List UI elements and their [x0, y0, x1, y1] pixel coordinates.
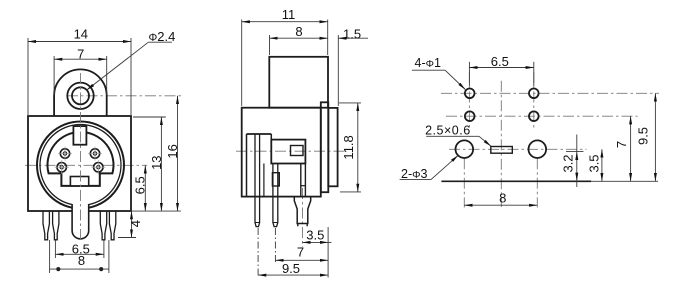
- svg-text:8: 8: [78, 253, 85, 268]
- svg-text:6.5: 6.5: [491, 54, 509, 69]
- svg-text:1.5: 1.5: [343, 27, 361, 42]
- svg-text:8: 8: [499, 191, 506, 206]
- svg-text:2.5×0.6: 2.5×0.6: [425, 124, 471, 138]
- svg-text:11.8: 11.8: [341, 135, 356, 159]
- svg-text:7: 7: [614, 141, 629, 148]
- svg-text:7: 7: [77, 47, 84, 62]
- svg-text:16: 16: [165, 144, 180, 158]
- svg-text:2-Φ3: 2-Φ3: [401, 167, 428, 181]
- svg-text:3.5: 3.5: [587, 154, 602, 172]
- svg-text:8: 8: [295, 24, 302, 39]
- svg-text:13: 13: [149, 155, 164, 169]
- svg-text:4-Φ1: 4-Φ1: [415, 56, 442, 70]
- svg-text:3.2: 3.2: [560, 154, 575, 172]
- svg-text:Φ2.4: Φ2.4: [149, 29, 176, 44]
- svg-text:9.5: 9.5: [282, 261, 300, 276]
- svg-text:6.5: 6.5: [133, 176, 148, 194]
- svg-text:11: 11: [282, 7, 296, 22]
- svg-text:14: 14: [74, 26, 88, 41]
- svg-text:7: 7: [297, 245, 304, 260]
- svg-text:4: 4: [128, 220, 143, 227]
- svg-text:3.5: 3.5: [306, 228, 324, 243]
- svg-text:9.5: 9.5: [636, 127, 651, 145]
